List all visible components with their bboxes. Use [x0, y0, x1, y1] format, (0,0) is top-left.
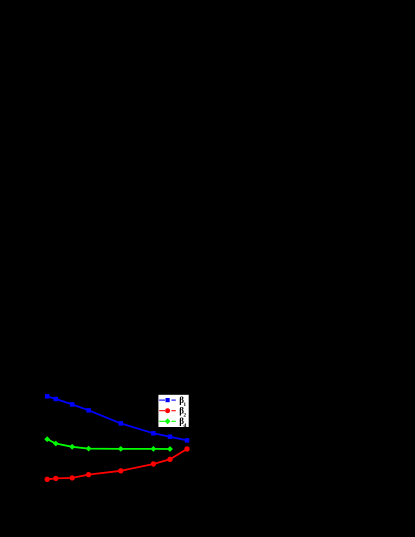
curve beta1 line (blue): [47, 396, 187, 440]
svg-text:d: d: [183, 423, 186, 429]
legend row 1: blue dashed sample + square: [159, 399, 176, 401]
legend labels: [179, 395, 186, 429]
curve beta1 markers (blue squares): [45, 394, 189, 443]
legend row 2: red dashed sample + circle: [159, 410, 176, 412]
curve beta2 line (red): [47, 449, 187, 479]
legend box: [158, 394, 189, 427]
curve beta2 markers (red circles): [45, 446, 190, 482]
curve betad markers (green diamonds): [44, 436, 173, 452]
legend row 3: green dashed sample + diamond: [159, 420, 176, 422]
curve betad line (green): [47, 439, 170, 449]
